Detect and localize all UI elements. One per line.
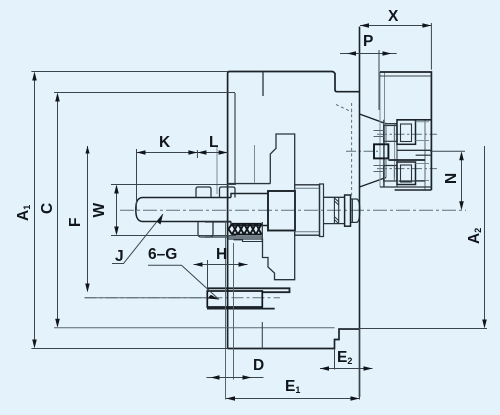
lower bolt inner (401, 165, 412, 182)
hole projection line right (233, 243, 235, 380)
retaining disc (345, 195, 351, 226)
body upper ledge (228, 183, 271, 185)
upper bolt inner (401, 124, 412, 142)
label 6-G with leader (148, 246, 219, 300)
hole projection line left (225, 222, 227, 400)
steps under spring pocket (234, 240, 263, 242)
svg-text:N: N (443, 173, 460, 184)
svg-text:P: P (363, 33, 373, 50)
wedge slot (upper tower) (270, 134, 294, 186)
lower guide block under shaft (198, 222, 213, 238)
groove hatch marks (334, 198, 338, 224)
dimension K (137, 134, 198, 210)
lower washer inner line (393, 166, 395, 182)
body inner step line (234, 93, 236, 184)
neck groove (334, 197, 338, 223)
svg-text:H: H (216, 246, 227, 263)
boss hole axis (6-G hole centerline) (85, 297, 281, 299)
lower bolt centerline (377, 168, 437, 170)
svg-text:F: F (67, 218, 84, 227)
lower interior staircase (228, 235, 295, 280)
locating boss (207, 291, 262, 307)
washer column left (384, 120, 397, 187)
master jaw lower dovetail edge (360, 178, 387, 188)
bolt shank lower (374, 166, 384, 172)
hidden stud line (216, 146, 218, 194)
dimension P (340, 33, 397, 110)
bolt shank upper (374, 131, 384, 137)
dimension E2 (320, 349, 373, 371)
dimension A2 (339, 146, 487, 329)
lower bolt body (397, 162, 416, 185)
chuck body outline (228, 72, 360, 349)
svg-text:L: L (209, 134, 218, 151)
dimension D (207, 357, 265, 380)
shaft step (231, 194, 268, 226)
flange disc (295, 185, 320, 235)
spindle neck (324, 197, 345, 223)
serration column lines (380, 72, 385, 187)
dimension L (197, 134, 227, 155)
nut block upper-left on shaft (196, 187, 211, 198)
boss slot lower line (207, 308, 275, 310)
ledge under upper bolt (397, 149, 431, 151)
jaw step second line (416, 154, 431, 156)
hidden line (jaw slot) (351, 103, 353, 196)
boss bore projection (261, 322, 263, 349)
svg-text:6–G: 6–G (148, 246, 177, 263)
nut block upper-right on shaft (220, 187, 236, 198)
jaw step top of bolt (397, 119, 431, 121)
jaw tongue (374, 144, 388, 158)
jaw inner right line (424, 120, 426, 191)
dimension N (430, 151, 465, 210)
tongue side verticals (385, 124, 387, 178)
upper washer inner line (393, 126, 395, 142)
chuck back face (359, 27, 361, 398)
upper bolt body (397, 120, 416, 145)
hidden diagonal wedge edge (336, 105, 352, 113)
dimension F (67, 146, 207, 298)
main centerline (120, 209, 466, 211)
svg-text:C: C (39, 203, 56, 214)
draw screw shaft (136, 198, 231, 222)
dimension W (91, 185, 236, 236)
upper bolt centerline (377, 133, 437, 135)
upper washer (384, 126, 397, 142)
lower bolt side lines (416, 164, 430, 181)
jaw bottom lines (399, 180, 426, 182)
lower washer (384, 166, 397, 182)
svg-text:W: W (91, 203, 108, 218)
svg-text:K: K (159, 134, 171, 151)
spring pocket (205, 222, 262, 242)
dimension X (360, 8, 431, 70)
jaw step left of bolt (386, 123, 397, 125)
body bottom recess line (228, 327, 335, 329)
jaw locating face (388, 159, 425, 161)
flange inner chamfer lines (295, 188, 319, 231)
dimension C (39, 93, 235, 328)
jaw tongue centerline (346, 150, 378, 152)
boss slot upper line (207, 288, 290, 292)
dimension A1 (15, 72, 228, 349)
body notch line (262, 72, 264, 97)
dimension H (194, 246, 248, 291)
thin back plate (320, 184, 324, 237)
body bottom edge (228, 329, 360, 349)
label J with leader (112, 214, 163, 265)
wedge piston (268, 191, 295, 231)
dimension E1 (226, 329, 360, 401)
svg-text:J: J (115, 248, 124, 265)
upper bolt side lines (416, 122, 430, 141)
top jaw outline (380, 72, 431, 190)
serration column mid (394, 124, 396, 178)
rounded end cap (351, 199, 360, 222)
svg-text:D: D (253, 357, 264, 374)
svg-text:X: X (388, 8, 399, 25)
master jaw upper dovetail edge (360, 114, 387, 124)
jaw top second line (380, 75, 431, 77)
spring (thread symbol) (229, 224, 262, 235)
wedge slot centerline (254, 145, 256, 183)
